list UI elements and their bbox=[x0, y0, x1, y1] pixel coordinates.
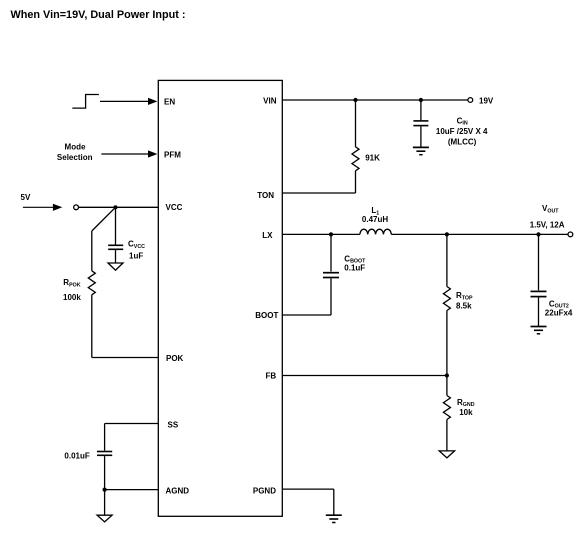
node LX-COUT2 junction bbox=[536, 232, 540, 236]
wire POK bbox=[92, 357, 159, 359]
svg-text:SS: SS bbox=[168, 421, 179, 430]
op-amp U1 main IC body bbox=[158, 80, 282, 516]
wire TON bbox=[282, 192, 355, 194]
node 5V input terminal bbox=[74, 205, 79, 210]
node VIN-91K junction bbox=[353, 98, 357, 102]
svg-text:5V: 5V bbox=[21, 193, 31, 202]
ground (triangle) below RGND bbox=[439, 451, 454, 458]
svg-text:Selection: Selection bbox=[57, 153, 93, 162]
svg-text:8.5k: 8.5k bbox=[456, 302, 472, 311]
wire LX (left of inductor) bbox=[282, 233, 360, 235]
node LX-RTOP junction bbox=[445, 232, 449, 236]
EN step-pulse symbol bbox=[72, 95, 99, 109]
svg-text:VCC: VCC bbox=[166, 203, 183, 212]
inductor L1 bbox=[360, 229, 391, 234]
svg-text:22uFx4: 22uFx4 bbox=[545, 308, 573, 317]
resistor RTOP bbox=[446, 234, 448, 286]
svg-text:0.1uF: 0.1uF bbox=[344, 264, 365, 273]
svg-text:AGND: AGND bbox=[166, 487, 190, 496]
wire FB bbox=[282, 375, 447, 377]
svg-text:TON: TON bbox=[257, 191, 274, 200]
node VOUT terminal bbox=[568, 232, 573, 237]
resistor RPOK bbox=[92, 207, 116, 231]
svg-text:BOOT: BOOT bbox=[255, 311, 278, 320]
svg-text:1uF: 1uF bbox=[129, 252, 143, 261]
svg-text:10uF /25V X 4: 10uF /25V X 4 bbox=[436, 127, 488, 136]
capacitor 0.01uF bbox=[97, 451, 112, 453]
svg-text:EN: EN bbox=[164, 98, 175, 107]
wire PGND bbox=[282, 488, 334, 490]
svg-text:Mode: Mode bbox=[65, 143, 86, 152]
svg-text:10k: 10k bbox=[459, 408, 473, 417]
node FB junction bbox=[445, 373, 449, 377]
svg-text:19V: 19V bbox=[479, 96, 494, 105]
svg-text:FB: FB bbox=[266, 371, 277, 380]
ground (earth) below COUT2 bbox=[531, 326, 547, 328]
node VCC junction bbox=[113, 205, 117, 209]
svg-text:0.47uH: 0.47uH bbox=[362, 215, 388, 224]
wire 5V arrow bbox=[23, 206, 54, 208]
svg-text:(MLCC): (MLCC) bbox=[448, 138, 477, 147]
capacitor COUT2 bbox=[538, 234, 540, 290]
node 19V terminal bbox=[468, 98, 473, 103]
wire LX (right of inductor) bbox=[391, 233, 568, 235]
ground (earth) below CIN bbox=[413, 146, 429, 148]
wire EN arrow into pin bbox=[100, 100, 149, 102]
svg-text:100k: 100k bbox=[63, 293, 81, 302]
ground (earth) below PGND bbox=[326, 514, 342, 516]
wire VIN bbox=[282, 99, 468, 101]
capacitor CVCC bbox=[115, 207, 117, 244]
resistor 91K bbox=[355, 100, 357, 147]
svg-text:LX: LX bbox=[262, 231, 273, 240]
svg-text:When Vin=19V, Dual Power Input: When Vin=19V, Dual Power Input : bbox=[11, 9, 186, 21]
svg-text:PGND: PGND bbox=[253, 487, 276, 496]
node VIN-CIN junction bbox=[419, 98, 423, 102]
svg-text:PFM: PFM bbox=[164, 151, 181, 160]
capacitor CBOOT bbox=[330, 234, 332, 271]
svg-text:VIN: VIN bbox=[263, 97, 277, 106]
svg-text:1.5V, 12A: 1.5V, 12A bbox=[530, 221, 565, 230]
wire VCC bbox=[79, 206, 159, 208]
resistor RGND bbox=[446, 376, 448, 396]
wire BOOT bbox=[282, 314, 331, 316]
wire PFM arrow into pin bbox=[101, 153, 149, 155]
svg-text:POK: POK bbox=[166, 354, 184, 363]
node AGND junction bbox=[103, 488, 107, 492]
svg-text:91K: 91K bbox=[365, 154, 380, 163]
ground (triangle) below AGND bbox=[97, 515, 112, 522]
ground (triangle) below CVCC bbox=[108, 263, 123, 270]
capacitor CIN bbox=[420, 100, 422, 120]
svg-text:0.01uF: 0.01uF bbox=[64, 452, 89, 461]
wire AGND bbox=[105, 489, 159, 491]
node LX-CBOOT junction bbox=[329, 232, 333, 236]
wire SS bbox=[105, 423, 159, 425]
